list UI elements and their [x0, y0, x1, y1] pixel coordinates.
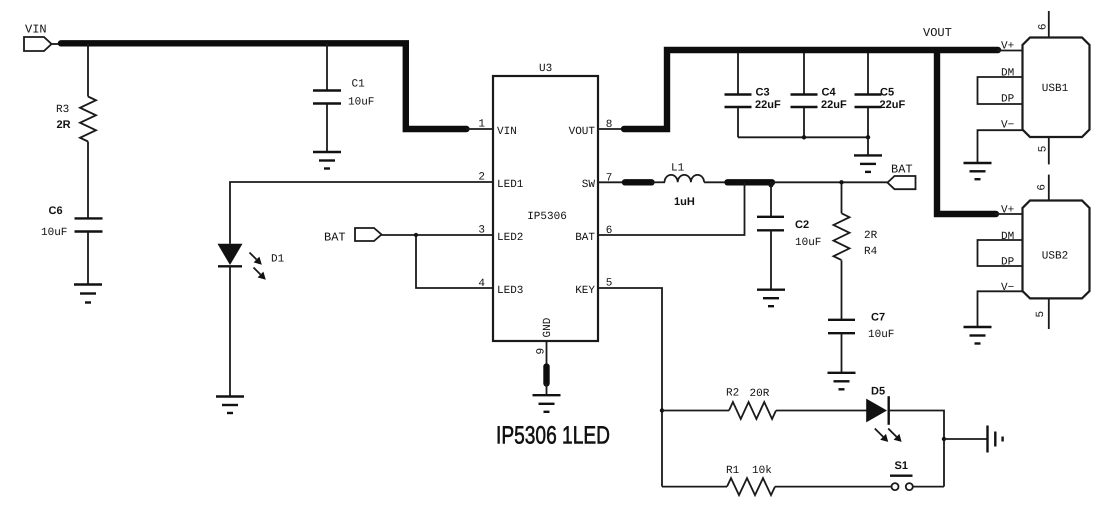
svg-text:GND: GND	[542, 317, 554, 337]
ground (C6)	[74, 285, 102, 303]
resistor R4	[834, 213, 878, 260]
LED D5 emission arrows	[875, 429, 902, 442]
resistor R1	[726, 465, 775, 495]
junction KEY/R2	[660, 408, 664, 412]
wire KEY to R1	[662, 486, 727, 488]
ground (USB1)	[964, 163, 992, 179]
svg-text:L1: L1	[671, 163, 685, 175]
svg-text:V+: V+	[1001, 41, 1014, 53]
resistor R3	[56, 97, 96, 142]
wire D1 to ground	[229, 266, 231, 397]
svg-text:D5: D5	[871, 386, 885, 398]
node BAT (left)	[324, 228, 382, 245]
wire R3 branch	[87, 43, 89, 96]
ground (USB2)	[964, 327, 992, 344]
wire to side ground	[944, 438, 987, 440]
resistor R2	[726, 388, 776, 420]
svg-text:22uF: 22uF	[821, 99, 847, 111]
ground (C2)	[757, 290, 785, 307]
svg-text:V−: V−	[1001, 119, 1014, 131]
wire USB1 V-	[978, 130, 1023, 163]
capacitor C4	[791, 87, 847, 112]
wire U3 pin8 VOUT stub	[598, 128, 626, 130]
op-amp U3 IP5306 body	[493, 63, 598, 341]
svg-text:KEY: KEY	[575, 285, 595, 297]
wire U3 pin6 BAT to SW node	[598, 182, 745, 235]
wire VOUT thick to USB1	[624, 50, 998, 129]
wire BAT tag to U3 pin3	[382, 234, 494, 236]
wire USB2 V-	[978, 291, 1023, 327]
svg-text:2R: 2R	[57, 119, 71, 131]
svg-text:10uF: 10uF	[41, 227, 67, 239]
junction ground branch	[942, 437, 946, 441]
wire to ground	[546, 384, 548, 396]
ground (U3 pin9)	[533, 395, 561, 412]
capacitor C1	[313, 79, 374, 109]
svg-text:C1: C1	[352, 79, 366, 91]
wire KEY to R2	[662, 410, 729, 412]
svg-text:VIN: VIN	[497, 126, 517, 138]
svg-text:C3: C3	[756, 87, 770, 99]
svg-text:10uF: 10uF	[795, 237, 821, 249]
wire USB2 pin6	[1048, 175, 1050, 201]
wire R4 top	[841, 182, 843, 213]
svg-text:VIN: VIN	[25, 23, 47, 37]
wire cap bus	[738, 136, 868, 138]
wire into pin1	[466, 128, 493, 130]
wire SW thick segment	[625, 179, 652, 185]
svg-text:C7: C7	[871, 312, 885, 324]
svg-text:USB2: USB2	[1042, 251, 1068, 263]
svg-text:SW: SW	[582, 179, 596, 191]
capacitor C7	[828, 312, 894, 342]
svg-text:BAT: BAT	[324, 231, 346, 245]
svg-text:C6: C6	[49, 205, 63, 217]
wire USB2 V+	[995, 213, 1023, 215]
svg-text:VOUT: VOUT	[923, 26, 952, 40]
junction C2	[769, 183, 774, 188]
connector USB1 body	[1023, 38, 1090, 138]
wire USB1 pin6	[1048, 11, 1050, 38]
wire to BAT tag	[772, 181, 888, 183]
connector USB2 body	[1023, 201, 1090, 299]
svg-text:R2: R2	[726, 388, 739, 400]
ground (C1)	[313, 152, 341, 169]
svg-text:DM: DM	[1001, 231, 1014, 243]
node VIN	[24, 23, 64, 52]
svg-text:DP: DP	[1001, 257, 1015, 269]
svg-text:LED1: LED1	[497, 179, 524, 191]
wire C1 to ground	[326, 104, 328, 153]
svg-text:20R: 20R	[750, 388, 770, 400]
capacitor C6	[41, 205, 103, 239]
LED D5	[866, 386, 889, 425]
svg-text:5: 5	[1035, 311, 1047, 318]
svg-text:R1: R1	[726, 465, 740, 477]
svg-text:22uF: 22uF	[880, 99, 906, 111]
svg-text:C2: C2	[795, 219, 809, 231]
svg-text:DP: DP	[1001, 94, 1015, 106]
wire U3 pin9 GND	[546, 341, 548, 365]
wire USB1 DM DP loop	[978, 77, 1023, 104]
wire C5 branch	[867, 53, 869, 95]
wire VOUT thick branch to USB2	[937, 53, 996, 214]
wire USB1 pin5	[1048, 137, 1050, 164]
wire C1 branch	[326, 43, 328, 90]
wire VIN thick from tag to U3 pin1	[61, 43, 467, 129]
junction	[414, 233, 418, 237]
wire U3 pin5 KEY	[598, 288, 662, 487]
LED D1 emission arrows	[250, 253, 266, 280]
ground (D1)	[216, 397, 244, 414]
wire U3 pin7 SW stub	[598, 181, 628, 183]
net tie pin9 thick segment	[543, 367, 549, 384]
wire USB2 pin5	[1048, 298, 1050, 329]
svg-text:10uF: 10uF	[348, 97, 374, 109]
wire SW output thick segment	[728, 179, 773, 185]
svg-text:C5: C5	[880, 87, 894, 99]
svg-text:DM: DM	[1001, 67, 1014, 79]
wire USB1 V+	[997, 50, 1023, 52]
svg-text:IP5306 1LED: IP5306 1LED	[496, 422, 610, 450]
svg-text:S1: S1	[895, 460, 908, 472]
wire USB2 DM DP loop	[978, 240, 1023, 266]
wire D5 to corner	[889, 411, 944, 487]
wire	[652, 181, 666, 183]
svg-text:10k: 10k	[752, 465, 772, 477]
svg-text:D1: D1	[271, 254, 285, 266]
svg-text:6: 6	[1038, 23, 1050, 30]
wire C2 top	[770, 182, 772, 217]
capacitor C3	[725, 87, 781, 112]
junction R4	[839, 180, 843, 184]
ground (C7)	[828, 373, 856, 390]
svg-text:IP5306: IP5306	[527, 211, 567, 223]
svg-text:BAT: BAT	[891, 163, 913, 177]
wire	[704, 181, 729, 183]
wire C6 to ground	[87, 232, 89, 285]
svg-text:VOUT: VOUT	[569, 126, 596, 138]
svg-text:R3: R3	[56, 104, 69, 116]
svg-text:6: 6	[1037, 184, 1049, 191]
capacitor C2	[757, 217, 821, 249]
capacitor C5	[855, 87, 906, 112]
ground (sideways)	[988, 426, 1003, 453]
node BAT (right)	[888, 163, 916, 190]
svg-text:22uF: 22uF	[755, 99, 781, 111]
wire C2 to ground	[770, 230, 772, 289]
wire U3 pin2 LED1 to D1	[230, 182, 493, 244]
wire R4 to C7	[841, 260, 843, 320]
svg-text:V−: V−	[1001, 282, 1014, 294]
wire R1 to S1	[775, 486, 892, 488]
wire R2 to D5	[776, 410, 867, 412]
svg-text:BAT: BAT	[575, 232, 595, 244]
wire R3 to C6	[87, 142, 89, 219]
svg-text:U3: U3	[539, 63, 552, 75]
inductor L1	[665, 163, 705, 209]
wire C7 to ground	[841, 333, 843, 373]
svg-text:LED3: LED3	[497, 285, 523, 297]
svg-text:10uF: 10uF	[868, 329, 894, 341]
wire C3 branch	[737, 53, 739, 95]
svg-text:1uH: 1uH	[674, 196, 695, 208]
wire S1 to corner	[913, 486, 944, 488]
svg-text:C4: C4	[822, 87, 837, 99]
LED D1	[218, 244, 285, 266]
junction	[866, 135, 870, 139]
junction	[802, 135, 806, 139]
wire junction to U3 pin4	[416, 235, 493, 288]
wire bus to ground	[867, 137, 869, 155]
svg-text:LED2: LED2	[497, 232, 523, 244]
svg-text:R4: R4	[864, 246, 878, 258]
svg-text:USB1: USB1	[1042, 83, 1069, 95]
svg-text:V+: V+	[1001, 204, 1014, 216]
switch S1	[890, 460, 913, 490]
ground (C3 C4 C5)	[854, 155, 882, 172]
svg-text:5: 5	[1038, 146, 1050, 153]
svg-text:1: 1	[478, 119, 485, 131]
svg-text:2R: 2R	[864, 230, 878, 242]
wire C4 branch	[803, 53, 805, 95]
